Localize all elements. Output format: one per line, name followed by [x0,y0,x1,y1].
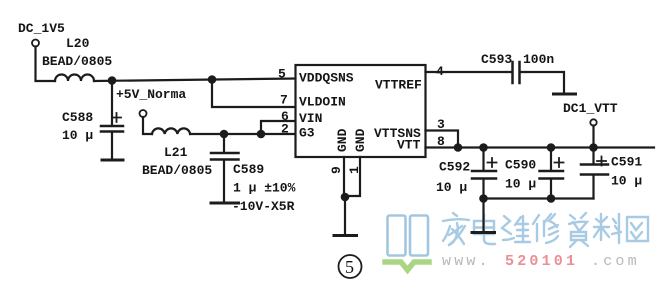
watermark url www.520101.com [442,253,640,270]
circled schematic number 5 [339,255,362,278]
junction node pin3 [455,144,461,150]
svg-text:5: 5 [278,67,286,82]
capacitor C591 [592,148,594,165]
wire from DC_1V5 down to L20 [36,47,56,82]
wire IC pin 4 to C593 [426,71,513,73]
svg-text:10 μ: 10 μ [62,128,93,143]
svg-text:L21: L21 [164,145,188,160]
wire IC pin 3 to rail [426,131,459,148]
svg-text:GND: GND [353,128,368,152]
capacitor C589 [223,134,225,153]
end bar (ground) [472,231,495,234]
svg-text:-10V-X5R: -10V-X5R [232,199,295,214]
watermark logo book (blue pages) [388,216,429,256]
junction node at C588 [109,77,115,83]
wire IC pin 1 (GND) down and left [345,157,360,196]
wire DC1_VTT down to VTT rail [592,126,594,148]
junction node DC1_VTT [590,144,596,150]
svg-text:C592: C592 [439,160,470,175]
VTT rail from IC pin 8 [426,146,655,148]
svg-text:.com: .com [591,253,640,270]
junction node C592 [480,144,486,150]
end bar (signal ground) [554,93,576,96]
svg-text:C590: C590 [505,158,536,173]
junction node bottom C590 [548,195,554,201]
svg-text:L20: L20 [66,36,90,51]
watermark chinese char 料 [594,214,621,243]
junction node C590 [548,144,554,150]
svg-text:VDDQSNS: VDDQSNS [299,71,354,86]
capacitor C588 [111,80,113,126]
svg-text:VTTREF: VTTREF [375,78,422,93]
svg-text:GND: GND [335,128,350,152]
junction node at pin 6 branch [258,131,264,137]
wire +5V_Norma to L21 [143,117,152,134]
wire IC pin 9 (GND) down [343,157,345,197]
watermark chinese char 修 [533,214,558,243]
svg-text:2: 2 [281,122,289,137]
ground stub below C592 [482,199,484,232]
inductor L21 [152,128,190,134]
wire C593 to end bar [520,72,564,93]
junction node to pin 7 [209,76,215,82]
svg-text:DC_1V5: DC_1V5 [18,21,65,36]
watermark logo green swoosh [385,262,429,270]
svg-text:BEAD/0805: BEAD/0805 [142,163,212,178]
wire L20 to IC pin 5 [94,79,296,82]
watermark chinese char 资 [569,213,588,247]
svg-text:www.: www. [442,253,491,270]
svg-text:C588: C588 [62,110,93,125]
capacitor C590 [550,148,552,171]
wire L21 to IC pin 2 (G3) [190,133,296,135]
svg-text:7: 7 [280,93,288,108]
svg-text:C593: C593 [481,52,512,67]
svg-text:C591: C591 [611,155,642,170]
svg-text:100n: 100n [523,52,554,67]
svg-text:BEAD/0805: BEAD/0805 [42,54,112,69]
watermark chinese char 家 [443,213,469,245]
svg-text:VTT: VTT [397,138,421,153]
junction node at C589 [221,131,227,137]
op-amp regulator IC U1 [296,65,426,157]
watermark chinese char 网 [627,217,648,241]
wire junction down to IC pin 7 [212,80,296,108]
svg-text:+5V_Norma: +5V_Norma [116,87,186,102]
watermark chinese char 电 [474,214,495,244]
wire GND stub [344,197,346,234]
svg-text:10 μ: 10 μ [436,180,467,195]
junction node bottom C592 [480,195,486,201]
svg-text:VLDOIN: VLDOIN [299,95,346,110]
svg-text:G3: G3 [299,126,315,141]
svg-text:9: 9 [329,166,344,174]
svg-text:10 μ: 10 μ [611,174,642,189]
inductor L20 [55,75,94,81]
svg-text:DC1_VTT: DC1_VTT [563,101,618,116]
svg-text:C589: C589 [233,162,264,177]
svg-text:10 μ: 10 μ [505,177,536,192]
wire junction up to IC pin 6 (VIN) [261,121,296,134]
capacitor C592 [482,148,484,171]
end bar (ground) [334,234,357,237]
svg-text:520101: 520101 [505,253,578,270]
svg-text:1 μ ±10%: 1 μ ±10% [233,181,296,196]
bottom rail joining capacitors [484,197,594,199]
watermark chinese char 维 [502,216,530,242]
svg-text:VIN: VIN [299,111,322,126]
svg-text:5: 5 [345,257,354,277]
junction node GND [342,194,348,200]
capacitor C593 [511,62,514,83]
